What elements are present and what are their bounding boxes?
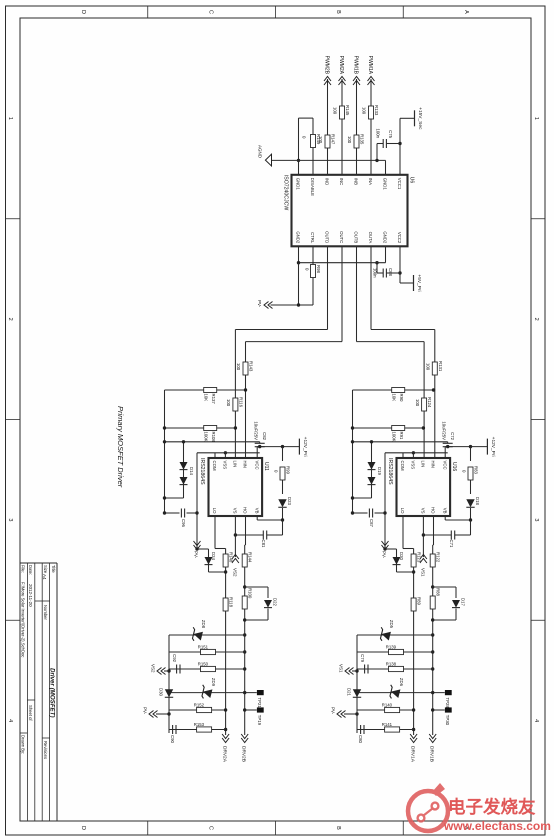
svg-text:VB: VB xyxy=(254,508,259,514)
svg-text:D20: D20 xyxy=(399,552,404,560)
svg-text:PV-: PV- xyxy=(331,707,336,715)
svg-text:C72: C72 xyxy=(450,432,455,440)
svg-text:0: 0 xyxy=(302,136,307,139)
resistor R90 xyxy=(353,389,433,391)
svg-text:Number: Number xyxy=(43,605,48,620)
resistor R133 xyxy=(369,106,374,119)
port VS2 xyxy=(232,555,239,564)
svg-text:R91: R91 xyxy=(399,432,404,440)
svg-text:100: 100 xyxy=(226,399,231,407)
net rail xyxy=(352,390,354,513)
zener ZD6 xyxy=(445,690,452,695)
svg-text:R151: R151 xyxy=(198,645,209,650)
svg-text:PWM2B: PWM2B xyxy=(324,56,330,75)
bias rail V2 xyxy=(353,441,448,443)
wire input PWM1B xyxy=(356,79,358,175)
svg-text:IRS21864S: IRS21864S xyxy=(199,458,205,485)
svg-text:PV-: PV- xyxy=(382,551,387,559)
svg-text:D23: D23 xyxy=(287,497,292,505)
svg-text:R138: R138 xyxy=(386,662,397,667)
svg-text:2: 2 xyxy=(7,318,13,321)
svg-text:R135: R135 xyxy=(360,134,365,145)
test point TP19 xyxy=(245,709,257,711)
svg-text:Revisions: Revisions xyxy=(43,741,48,759)
svg-text:C88: C88 xyxy=(388,268,393,276)
resistor R88 xyxy=(430,596,435,609)
capacitor C96 xyxy=(187,512,198,514)
port PV- driver xyxy=(194,541,201,550)
diode D14 xyxy=(183,442,185,498)
svg-text:R123: R123 xyxy=(417,552,422,563)
svg-text:Driver (MOSFET): Driver (MOSFET) xyxy=(49,668,56,718)
svg-text:ZD6: ZD6 xyxy=(399,678,404,687)
zener ZD5 xyxy=(431,633,434,636)
svg-text:R144: R144 xyxy=(248,552,253,563)
svg-text:10K: 10K xyxy=(392,394,397,402)
svg-text:GND1: GND1 xyxy=(296,178,301,191)
svg-text:HIN: HIN xyxy=(243,461,248,468)
svg-text:+5V_Pri: +5V_Pri xyxy=(416,274,422,291)
svg-text:DISABLE: DISABLE xyxy=(310,178,315,196)
power +15V_Sec xyxy=(414,110,416,126)
resistor R152 xyxy=(257,707,264,712)
wire COM VSS tie xyxy=(214,453,216,458)
svg-text:LO: LO xyxy=(400,508,405,514)
svg-text:Date:: Date: xyxy=(28,565,33,575)
capacitor C75 xyxy=(398,142,401,145)
wire VS xyxy=(422,516,424,557)
diode D30 xyxy=(165,689,173,697)
svg-text:2012-11-20: 2012-11-20 xyxy=(28,584,33,607)
svg-text:U6: U6 xyxy=(409,177,415,184)
svg-text:VSS: VSS xyxy=(411,461,416,470)
test point TP30 xyxy=(433,709,445,711)
svg-text:D: D xyxy=(80,826,86,830)
resistor R140 xyxy=(445,707,452,712)
svg-text:R143: R143 xyxy=(249,361,254,372)
svg-text:C92: C92 xyxy=(172,654,177,662)
svg-text:R150: R150 xyxy=(198,662,209,667)
resistor R89 xyxy=(411,598,416,611)
svg-text:100: 100 xyxy=(415,399,420,407)
svg-text:VCC: VCC xyxy=(442,461,447,470)
svg-text:TP30: TP30 xyxy=(445,715,450,726)
wire OUTD to lower driver LIN xyxy=(327,246,329,329)
svg-text:100: 100 xyxy=(362,107,367,115)
wire HO to DRV2B xyxy=(245,516,247,545)
diode D19 xyxy=(371,442,373,498)
svg-text:INA: INA xyxy=(368,178,373,185)
svg-text:Size: Size xyxy=(43,565,48,574)
svg-text:0: 0 xyxy=(305,268,310,271)
capacitor C81 xyxy=(281,518,284,521)
svg-text:DRV2A: DRV2A xyxy=(222,746,228,763)
port DRV1B xyxy=(429,734,436,743)
svg-text:D19: D19 xyxy=(377,467,382,475)
watermark elecfans logo xyxy=(402,780,552,838)
svg-text:F:\More Solar Inverter\(Driver: F:\More Solar Inverter\(Driver-2).SchDoc xyxy=(20,582,25,657)
resistor R145 xyxy=(340,106,345,119)
svg-text:B: B xyxy=(335,10,341,14)
resistor R131 xyxy=(432,362,437,375)
port DRV2A xyxy=(222,734,229,743)
port VS2 rail xyxy=(167,669,170,672)
svg-text:D30: D30 xyxy=(159,688,164,696)
svg-text:C75: C75 xyxy=(388,130,393,138)
svg-text:C87: C87 xyxy=(369,519,374,527)
test point TP21 xyxy=(169,692,257,694)
svg-text:+15V_Sec: +15V_Sec xyxy=(417,107,423,130)
wire R149 to GND1 xyxy=(312,118,314,134)
svg-text:C80: C80 xyxy=(358,735,363,743)
svg-text:2: 2 xyxy=(533,318,539,321)
svg-text:C82: C82 xyxy=(262,432,267,440)
svg-text:4: 4 xyxy=(533,719,539,722)
resistor R139 xyxy=(431,650,434,653)
wire VS xyxy=(234,516,236,557)
svg-text:R137: R137 xyxy=(211,394,216,405)
svg-text:INC: INC xyxy=(339,178,344,185)
svg-text:R108: R108 xyxy=(211,432,216,443)
capacitor C79 xyxy=(367,665,369,674)
resistor R98 xyxy=(312,246,314,264)
svg-text:R147: R147 xyxy=(331,134,336,145)
zener ZD8 xyxy=(243,633,246,636)
svg-text:HIN: HIN xyxy=(431,461,436,468)
svg-text:GND2: GND2 xyxy=(296,231,301,244)
ground AGND xyxy=(265,154,271,166)
port DRV1A xyxy=(410,734,417,743)
resistor R100 xyxy=(242,596,247,609)
resistor R122 xyxy=(430,554,435,567)
bootstrap resistor R83 xyxy=(469,445,472,448)
svg-text:INB: INB xyxy=(354,178,359,185)
resistor R124 xyxy=(422,398,427,411)
svg-text:D22: D22 xyxy=(273,598,278,606)
input port PWM2A xyxy=(339,77,346,86)
svg-text:R122: R122 xyxy=(436,552,441,563)
resistor R141 xyxy=(412,728,415,731)
svg-text:VS: VS xyxy=(421,508,426,514)
svg-text:Title: Title xyxy=(51,565,56,573)
svg-text:R100: R100 xyxy=(248,588,253,599)
svg-text:PWM1B: PWM1B xyxy=(353,56,359,75)
power +12V_Pri xyxy=(298,439,300,455)
input port PWM1B xyxy=(353,77,360,86)
svg-text:R141: R141 xyxy=(382,722,393,727)
svg-text:Sheet of: Sheet of xyxy=(28,705,33,721)
capacitor C88 xyxy=(398,271,401,274)
wire VCC to +12V xyxy=(256,447,258,458)
diode D17 xyxy=(431,585,434,588)
svg-text:COM: COM xyxy=(212,461,217,471)
wire HO to DRV1B xyxy=(433,516,435,545)
svg-text:A4: A4 xyxy=(42,574,47,580)
svg-text:R131: R131 xyxy=(438,361,443,372)
resistor R144 xyxy=(242,554,247,567)
wire GND1 pin xyxy=(385,160,387,174)
resistor R149 xyxy=(312,148,314,175)
svg-text:100n: 100n xyxy=(373,268,378,278)
diode D20 xyxy=(412,570,415,573)
svg-text:CTRL: CTRL xyxy=(310,232,315,244)
svg-text:R140: R140 xyxy=(382,703,393,708)
svg-text:VS1: VS1 xyxy=(339,664,344,673)
bootstrap resistor R99 xyxy=(281,445,284,448)
svg-text:OUTD: OUTD xyxy=(325,231,330,243)
GND1 bus xyxy=(272,159,386,161)
resistor R118 xyxy=(223,598,228,611)
wire OUTC to lower driver HIN xyxy=(341,246,343,341)
diode D23 xyxy=(282,480,284,494)
svg-text:100: 100 xyxy=(347,136,352,144)
wire VCC1 xyxy=(399,118,401,175)
svg-text:C: C xyxy=(208,10,214,14)
svg-text:ZD5: ZD5 xyxy=(389,620,394,629)
svg-text:A: A xyxy=(463,10,469,14)
bias rail V2 xyxy=(165,441,260,443)
svg-text:OUTA: OUTA xyxy=(368,232,373,244)
wire input PWM2B xyxy=(327,79,329,175)
svg-text:VCC2: VCC2 xyxy=(397,232,402,244)
capacitor C72 xyxy=(443,442,453,444)
svg-text:0: 0 xyxy=(274,470,279,473)
capacitor C90 xyxy=(175,725,177,734)
svg-text:R149: R149 xyxy=(316,134,321,145)
resistor R153 xyxy=(224,728,227,731)
svg-text:VS1: VS1 xyxy=(420,568,425,577)
resistor R91 xyxy=(353,427,424,429)
svg-text:DRV1A: DRV1A xyxy=(410,746,416,763)
svg-text:D14: D14 xyxy=(189,467,194,475)
capacitor C92 xyxy=(179,665,181,674)
svg-text:R118: R118 xyxy=(229,597,234,608)
svg-text:VS: VS xyxy=(233,508,238,514)
wire input PWM2A xyxy=(341,79,343,175)
svg-text:4: 4 xyxy=(7,719,13,722)
output rail xyxy=(168,635,170,733)
svg-text:R90: R90 xyxy=(399,394,404,402)
svg-text:100K: 100K xyxy=(204,432,209,442)
wire LO to DRV2A xyxy=(214,516,216,549)
resistor R137 xyxy=(165,389,245,391)
svg-text:C90: C90 xyxy=(170,735,175,743)
port VS1 xyxy=(420,555,427,564)
svg-text:www.elecfans.com: www.elecfans.com xyxy=(443,819,551,833)
svg-text:TP21: TP21 xyxy=(257,698,262,709)
svg-text:File:: File: xyxy=(20,565,25,573)
svg-text:HO: HO xyxy=(431,507,436,514)
net rail xyxy=(164,390,166,513)
svg-text:R139: R139 xyxy=(386,645,397,650)
power +5V_Pri xyxy=(413,275,415,291)
svg-text:TP19: TP19 xyxy=(257,715,262,726)
wire VCC to +12V xyxy=(444,447,446,458)
port PV- driver xyxy=(382,541,389,550)
svg-text:PWM2A: PWM2A xyxy=(338,56,344,75)
svg-text:1: 1 xyxy=(7,117,13,120)
port PV- rail xyxy=(344,713,357,715)
svg-text:+12V_Pri: +12V_Pri xyxy=(302,437,308,457)
resistor R148 xyxy=(223,554,228,567)
svg-text:C96: C96 xyxy=(181,519,186,527)
wire PV- node xyxy=(196,453,198,549)
diode D21 xyxy=(353,689,361,697)
svg-text:VCC: VCC xyxy=(254,461,259,470)
svg-text:R88: R88 xyxy=(436,588,441,596)
svg-text:LIN: LIN xyxy=(233,461,238,468)
resistor R135 xyxy=(354,135,359,148)
svg-text:OUTC: OUTC xyxy=(339,231,344,243)
wire OUTA to upper driver HIN xyxy=(370,246,372,329)
resistor R116 xyxy=(233,398,238,411)
svg-text:R99: R99 xyxy=(286,466,291,474)
diode D24 xyxy=(224,570,227,573)
zone ticks xyxy=(531,218,545,220)
svg-text:AGND: AGND xyxy=(258,145,263,159)
svg-text:U11: U11 xyxy=(263,462,269,471)
svg-text:VSS: VSS xyxy=(223,461,228,470)
wire GND2 pins xyxy=(385,246,387,262)
svg-text:ISO7240CJCW: ISO7240CJCW xyxy=(283,175,289,211)
svg-text:R89: R89 xyxy=(417,597,422,605)
wire input PWM1A xyxy=(370,79,372,175)
svg-text:3: 3 xyxy=(7,518,13,521)
wire VCC2 xyxy=(399,246,401,283)
svg-text:GND1: GND1 xyxy=(383,178,388,191)
title block xyxy=(56,563,58,821)
svg-text:R148: R148 xyxy=(229,552,234,563)
wire PV- node xyxy=(384,453,386,549)
svg-text:D18: D18 xyxy=(475,497,480,505)
svg-text:LIN: LIN xyxy=(421,461,426,468)
resistor R150 xyxy=(243,667,246,670)
port PV- near U6 xyxy=(264,302,273,309)
svg-text:10uF/25V: 10uF/25V xyxy=(254,421,259,440)
output rail xyxy=(356,635,358,733)
op-amp U16 IRS21864S gate driver xyxy=(397,458,451,516)
svg-text:100: 100 xyxy=(333,107,338,115)
svg-text:IRS21864S: IRS21864S xyxy=(387,458,393,485)
svg-text:R98: R98 xyxy=(316,265,321,273)
port VS1 rail xyxy=(355,669,358,672)
svg-text:COM: COM xyxy=(400,461,405,471)
svg-text:LO: LO xyxy=(212,508,217,514)
svg-text:0: 0 xyxy=(462,470,467,473)
svg-text:R153: R153 xyxy=(194,722,205,727)
svg-text:1: 1 xyxy=(533,117,539,120)
svg-text:D24: D24 xyxy=(211,552,216,560)
svg-text:VS2: VS2 xyxy=(232,568,237,577)
svg-text:D: D xyxy=(80,10,86,14)
svg-text:3: 3 xyxy=(533,518,539,521)
svg-text:Primary MOSFET Driver: Primary MOSFET Driver xyxy=(116,406,125,488)
svg-text:PV-: PV- xyxy=(143,707,148,715)
resistor R123 xyxy=(411,554,416,567)
capacitor C80 xyxy=(363,725,365,734)
zener ZD9 xyxy=(257,690,264,695)
capacitor C82 xyxy=(255,442,265,444)
svg-text:C71: C71 xyxy=(449,540,454,548)
svg-text:DRV2B: DRV2B xyxy=(241,746,247,762)
svg-text:10K: 10K xyxy=(204,394,209,402)
svg-text:R133: R133 xyxy=(374,105,379,116)
resistor R143 xyxy=(243,362,248,375)
svg-text:C79: C79 xyxy=(360,654,365,662)
svg-text:R145: R145 xyxy=(345,105,350,116)
capacitor C87 xyxy=(375,512,386,514)
svg-text:C: C xyxy=(208,826,214,830)
wire OUTB to upper driver LIN xyxy=(356,246,358,341)
port DRV2B xyxy=(241,734,248,743)
svg-text:HO: HO xyxy=(243,507,248,514)
svg-text:+12V_Pri: +12V_Pri xyxy=(490,437,496,457)
svg-text:10uF/25V: 10uF/25V xyxy=(442,421,447,440)
wire COM VSS tie xyxy=(402,453,404,458)
svg-text:100: 100 xyxy=(426,363,431,371)
resistor R108 xyxy=(165,427,236,429)
svg-text:R152: R152 xyxy=(194,703,205,708)
svg-text:VS2: VS2 xyxy=(151,664,156,673)
svg-text:R116: R116 xyxy=(238,397,243,408)
svg-text:C81: C81 xyxy=(261,540,266,548)
port PV- rail xyxy=(156,713,169,715)
svg-text:R124: R124 xyxy=(427,397,432,408)
svg-text:电子发烧友: 电子发烧友 xyxy=(448,797,536,817)
svg-text:OUTB: OUTB xyxy=(354,231,359,243)
svg-text:100K: 100K xyxy=(392,432,397,442)
svg-text:B: B xyxy=(335,826,341,830)
svg-text:D17: D17 xyxy=(461,598,466,606)
svg-text:PWM1A: PWM1A xyxy=(367,56,373,75)
svg-text:DRV1B: DRV1B xyxy=(429,746,435,762)
svg-text:PV-: PV- xyxy=(194,551,199,559)
resistor R147 xyxy=(325,135,330,148)
resistor R151 xyxy=(243,650,246,653)
diode D22 xyxy=(243,585,246,588)
resistor R138 xyxy=(431,667,434,670)
svg-text:D21: D21 xyxy=(347,688,352,696)
svg-text:IND: IND xyxy=(325,178,330,185)
diode D18 xyxy=(470,480,472,494)
svg-text:100n: 100n xyxy=(376,128,381,138)
svg-text:100: 100 xyxy=(236,363,241,371)
input port PWM1A xyxy=(368,77,375,86)
svg-text:R83: R83 xyxy=(474,466,479,474)
svg-text:VB: VB xyxy=(442,508,447,514)
wire LO to DRV1A xyxy=(402,516,404,549)
op-amp U11 IRS21864S gate driver xyxy=(209,458,263,516)
svg-text:VCC1: VCC1 xyxy=(397,178,402,190)
test point TP28 xyxy=(357,692,445,694)
capacitor C71 xyxy=(469,518,472,521)
svg-text:Drawn By:: Drawn By: xyxy=(20,735,25,754)
svg-text:PV-: PV- xyxy=(257,300,262,308)
svg-text:TP28: TP28 xyxy=(445,698,450,709)
input port PWM2B xyxy=(324,77,331,86)
svg-text:GND2: GND2 xyxy=(383,231,388,244)
svg-text:ZD8: ZD8 xyxy=(201,620,206,629)
svg-text:U16: U16 xyxy=(451,462,457,471)
GND2 bus xyxy=(299,262,386,264)
op-amp U6 ISO7240 digital isolator xyxy=(292,175,408,247)
svg-text:ZD9: ZD9 xyxy=(211,678,216,687)
power +12V_Pri xyxy=(486,439,488,455)
